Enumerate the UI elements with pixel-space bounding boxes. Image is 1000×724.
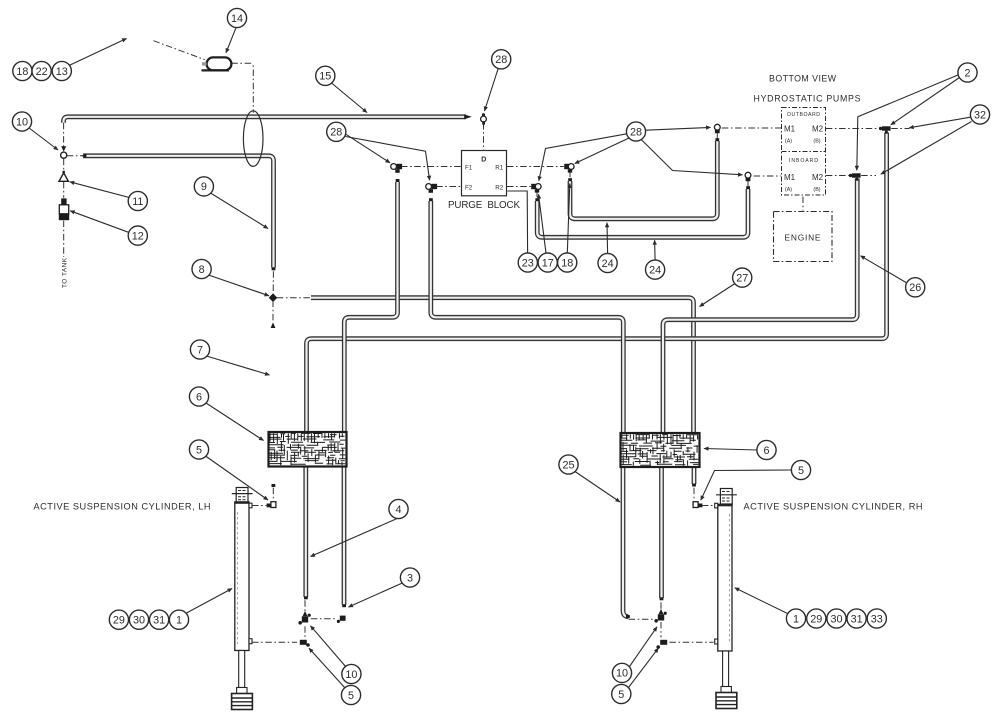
- svg-text:6: 6: [196, 391, 202, 403]
- wire hose 9 to node: [272, 271, 274, 295]
- svg-text:(B): (B): [813, 139, 820, 145]
- cap hose 9 lower end: [272, 267, 276, 270]
- callout 18 upper left: [13, 61, 32, 80]
- callout 1 RH: [786, 609, 805, 628]
- svg-text:18: 18: [561, 257, 573, 269]
- svg-text:15: 15: [319, 71, 331, 83]
- wire node to hose 27: [277, 297, 311, 299]
- cap RH base hose (M2) end: [660, 597, 664, 600]
- wire RH rod hose to elbow 5: [693, 488, 695, 500]
- grommet ellipse: [243, 111, 263, 167]
- leader 24 outer: [654, 240, 657, 260]
- cap LH rod hose end: [272, 484, 276, 487]
- svg-text:8: 8: [199, 264, 205, 276]
- svg-text:5: 5: [348, 690, 354, 702]
- wire junction to check valve 11: [63, 159, 65, 173]
- callout 31 RH: [847, 609, 866, 628]
- tee fitting 10 RH: [654, 609, 666, 623]
- hydrostatic pumps box: [782, 108, 826, 196]
- fitting 28 at R2: [531, 184, 541, 193]
- callout 28 top: [492, 50, 511, 69]
- svg-text:27: 27: [736, 272, 748, 284]
- callout 14: [227, 8, 246, 27]
- leader 15: [332, 83, 368, 113]
- hose 9 (junction to node, upper left): [83, 156, 274, 268]
- wire pumps to engine: [802, 197, 804, 211]
- svg-text:14: 14: [231, 13, 243, 25]
- callout 10 bottom LH: [342, 664, 361, 683]
- svg-text:BOTTOM VIEW: BOTTOM VIEW: [769, 74, 837, 84]
- svg-text:5: 5: [196, 444, 202, 456]
- purge block U1: [462, 151, 507, 196]
- cap inner U right leg top: [715, 138, 719, 141]
- leader 28 top: [485, 69, 499, 111]
- node junction 8: [269, 293, 278, 302]
- callout 24 outer: [646, 260, 665, 279]
- wire RH elbow 5 to rod port: [702, 505, 714, 507]
- leader 32 to inboard M2: [881, 122, 972, 175]
- leader 1 RH: [735, 588, 788, 614]
- svg-text:2: 2: [964, 67, 970, 79]
- svg-text:F1: F1: [465, 164, 473, 171]
- svg-text:D: D: [481, 155, 486, 164]
- callout 15: [316, 66, 335, 85]
- cap inner U left leg top: [568, 178, 572, 181]
- callout 18 middle: [558, 253, 577, 272]
- callout 30 RH: [827, 609, 846, 628]
- svg-text:22: 22: [36, 66, 48, 78]
- svg-text:12: 12: [132, 230, 144, 242]
- wire RH F2 hose to tee 10: [629, 618, 655, 620]
- callout 26: [906, 278, 925, 297]
- svg-text:29: 29: [113, 615, 125, 627]
- callout 4: [389, 499, 408, 518]
- filter 12: [59, 198, 69, 220]
- leader 28 left to F2: [346, 137, 430, 181]
- arrow above LH rod-side hose start: [271, 322, 276, 328]
- callout 27: [733, 268, 752, 287]
- wire outboard M2 port to fitting 2: [826, 128, 881, 130]
- wire hose 15 to junction: [63, 123, 65, 150]
- leader 12: [70, 211, 129, 233]
- leader 5 bottom LH: [309, 648, 346, 688]
- wire LH tee 10 to elbow: [311, 618, 337, 620]
- svg-text:33: 33: [871, 613, 883, 625]
- wire inboard M1 fitting to outer U hose: [747, 180, 749, 186]
- leader 28 left to F1: [346, 134, 390, 163]
- leader 32 to outboard M2: [909, 117, 970, 128]
- wire R2 port to fitting 28: [507, 186, 531, 188]
- cap F1 hose top: [396, 179, 400, 182]
- check valve 11: [59, 171, 68, 182]
- callout 8: [192, 259, 211, 278]
- svg-text:17: 17: [542, 257, 554, 269]
- hose 25 (purge F2 to RH cylinder base): [431, 201, 629, 617]
- svg-text:1: 1: [176, 615, 182, 627]
- svg-text:26: 26: [909, 282, 921, 294]
- hose 24 (R1 to outboard M1, inner U): [570, 141, 717, 219]
- wire inboard M2 port to fitting 2: [826, 175, 851, 177]
- svg-text:ACTIVE SUSPENSION CYLINDER, RH: ACTIVE SUSPENSION CYLINDER, RH: [744, 502, 923, 512]
- wire R1 port to fitting 28: [507, 166, 564, 168]
- hose (inboard M2 to RH cylinder base): [662, 179, 858, 599]
- leader 25: [575, 472, 620, 503]
- cap RH base hose (F2) end: [626, 615, 630, 618]
- svg-text:28: 28: [495, 54, 507, 66]
- hose (purge F1 to LH cylinder base): [344, 182, 398, 605]
- svg-text:F2: F2: [465, 184, 473, 191]
- svg-text:24: 24: [602, 258, 614, 270]
- wire node down to LH rod hose: [272, 301, 274, 322]
- fitting 28 at F2: [426, 184, 437, 193]
- wire check valve 11 to filter 12: [63, 182, 65, 198]
- leader 10 bottom RH: [630, 627, 658, 667]
- elbow 5 at RH rod port: [693, 502, 702, 508]
- leader 14: [226, 28, 236, 53]
- wire R2 fitting to outer U hose: [536, 191, 538, 199]
- wire LH rod port to elbow 5: [252, 505, 266, 507]
- leader 28 right to inboard M1: [641, 140, 742, 175]
- wire RH tee 10 to fitting 5: [660, 622, 662, 637]
- callout 1 LH: [169, 610, 188, 629]
- svg-text:29: 29: [810, 613, 822, 625]
- hose 26 (outboard M2 to LH cylinder base): [306, 133, 887, 598]
- wire R1 fitting to inner U hose: [569, 171, 571, 179]
- leader 11: [70, 182, 129, 198]
- wire clamp 14 to main hose: [231, 63, 253, 113]
- active suspension cylinder RH: [715, 489, 737, 709]
- leader 5 LH: [206, 456, 269, 500]
- svg-text:13: 13: [56, 66, 68, 78]
- svg-text:18: 18: [16, 66, 28, 78]
- svg-text:31: 31: [851, 613, 863, 625]
- hose 15 (main supply to purge block D): [64, 117, 467, 123]
- svg-text:10: 10: [345, 669, 357, 681]
- leader 7: [207, 356, 270, 375]
- svg-text:OUTBOARD: OUTBOARD: [787, 112, 820, 118]
- leader 8: [209, 275, 270, 296]
- elbow at LH base (hose 3): [337, 616, 346, 623]
- svg-text:32: 32: [974, 109, 986, 121]
- wire outboard M1 fitting to inner U hose: [716, 132, 718, 138]
- callout 28 right: [626, 122, 645, 141]
- leader 28 right to R2: [539, 134, 627, 181]
- svg-text:M2: M2: [812, 173, 824, 182]
- wire junction to hose 9: [67, 155, 83, 157]
- svg-text:ENGINE: ENGINE: [785, 233, 821, 243]
- callout 29 LH: [109, 610, 128, 629]
- leader 23: [508, 191, 528, 253]
- svg-text:HYDROSTATIC PUMPS: HYDROSTATIC PUMPS: [754, 94, 861, 104]
- callout 2: [958, 63, 977, 82]
- wire outboard M1 port line: [722, 127, 781, 129]
- callout 13: [52, 61, 71, 80]
- svg-text:R1: R1: [495, 164, 503, 171]
- wire filter 12 to tank: [63, 221, 65, 257]
- callout 5 bottom LH: [341, 685, 360, 704]
- callout 33 RH: [867, 609, 886, 628]
- callout 11: [128, 191, 147, 210]
- svg-text:24: 24: [649, 264, 661, 276]
- wire LH rod hose to elbow 5: [272, 488, 274, 501]
- junction node 10: [61, 146, 67, 158]
- leader 1 LH: [187, 589, 233, 614]
- leader 10 bottom LH: [311, 626, 347, 667]
- leader 2 to inboard M2: [857, 75, 959, 170]
- hose 27 (node to RH cylinder rod side): [311, 298, 694, 484]
- leader 6 LH: [206, 403, 264, 441]
- hose 24 (R2 to inboard M1, outer U): [537, 189, 748, 237]
- callout 5 RH: [791, 460, 810, 479]
- svg-text:TO TANK: TO TANK: [62, 257, 69, 288]
- svg-text:11: 11: [132, 196, 143, 208]
- wire fitting 28 to purge block D port: [483, 123, 485, 150]
- callout 5 LH: [189, 440, 208, 459]
- callout 12: [128, 226, 147, 245]
- svg-text:M1: M1: [784, 125, 796, 134]
- arrow at hose 15 right end: [464, 114, 472, 119]
- svg-text:INBOARD: INBOARD: [789, 158, 818, 164]
- tee fitting 10 LH: [298, 611, 310, 625]
- leader 24 inner: [606, 223, 609, 253]
- leader 13: [69, 39, 127, 66]
- cap LH base hose (F1) end: [342, 604, 346, 607]
- svg-text:6: 6: [763, 445, 769, 457]
- fitting 2 at inboard M2: [849, 173, 861, 180]
- leader 4: [311, 516, 405, 557]
- callout 10 bottom RH: [612, 663, 631, 682]
- svg-text:28: 28: [630, 126, 642, 138]
- wire inboard M2 fitting stub: [861, 175, 876, 177]
- fitting 5 LH base: [300, 640, 310, 647]
- callout 5 bottom RH: [612, 684, 631, 703]
- wire outboard M2 fitting stub: [891, 128, 909, 130]
- leader 10 upper left: [29, 128, 59, 151]
- svg-text:23: 23: [522, 257, 534, 269]
- wire RH base hose to tee 10: [660, 602, 662, 613]
- callout 7: [190, 340, 209, 359]
- svg-text:31: 31: [153, 615, 165, 627]
- callout 30 LH: [129, 610, 148, 629]
- wire LH base hose to tee 10: [304, 600, 306, 615]
- svg-text:10: 10: [16, 116, 28, 128]
- leader 5 bottom RH: [629, 648, 659, 687]
- leader 2 to outboard M2: [891, 78, 960, 125]
- svg-text:(B): (B): [813, 187, 820, 193]
- leader 17: [539, 194, 547, 253]
- cap F2 hose top: [429, 198, 433, 201]
- svg-text:ACTIVE SUSPENSION CYLINDER, LH: ACTIVE SUSPENSION CYLINDER, LH: [34, 502, 211, 512]
- dash line to clamp 14: [154, 41, 205, 60]
- leader 28 right to outboard M1: [646, 127, 711, 130]
- callout 6 LH: [189, 387, 208, 406]
- wire LH base port to fitting 5: [252, 641, 297, 643]
- fitting 28 at inboard M1: [745, 172, 751, 181]
- callout 17: [538, 253, 557, 272]
- wire RH fitting 5 to base port: [669, 641, 713, 643]
- svg-text:10: 10: [616, 668, 628, 680]
- svg-text:M2: M2: [812, 125, 824, 134]
- callout 28 left: [327, 122, 346, 141]
- svg-text:28: 28: [330, 127, 342, 139]
- leader 26: [861, 256, 907, 283]
- svg-text:3: 3: [407, 572, 413, 584]
- leader 27: [700, 284, 736, 307]
- cap outer U right leg top: [746, 186, 750, 189]
- cap outer U left leg top: [535, 198, 539, 201]
- leader 5 RH: [701, 470, 792, 500]
- active suspension cylinder LH: [232, 488, 253, 710]
- svg-text:9: 9: [201, 181, 207, 193]
- svg-text:(A): (A): [785, 187, 792, 193]
- engine box: [774, 212, 833, 262]
- fitting 28 at outboard M1: [714, 124, 720, 133]
- callout 9: [194, 177, 213, 196]
- callout 31 LH: [150, 610, 169, 629]
- callout 3: [400, 568, 419, 587]
- cap hose 27 lower end: [692, 484, 696, 487]
- callout 24 inner: [598, 253, 617, 272]
- svg-text:4: 4: [395, 504, 401, 516]
- svg-text:5: 5: [798, 465, 804, 477]
- leader 9: [211, 193, 269, 229]
- callout 23: [518, 253, 537, 272]
- svg-text:30: 30: [830, 613, 842, 625]
- leader 3: [349, 583, 404, 608]
- wire fitting 28 to F2 port: [436, 186, 461, 188]
- svg-text:(A): (A): [785, 139, 792, 145]
- wire inboard M1 port line: [754, 175, 781, 177]
- wire LH tee 10 to fitting 5: [304, 626, 306, 639]
- sleeve block 6 RH: [621, 433, 700, 467]
- leader 18: [567, 184, 570, 254]
- cap LH base hose (M2) end: [304, 596, 308, 599]
- elbow 5 at LH rod port: [267, 502, 276, 508]
- sleeve block 6 LH: [269, 432, 347, 467]
- svg-text:R2: R2: [495, 184, 503, 191]
- svg-text:M1: M1: [784, 173, 796, 182]
- callout 22: [32, 61, 51, 80]
- fitting 28 at R1: [564, 164, 574, 173]
- arrow at hose 9 left end: [81, 154, 87, 158]
- svg-text:1: 1: [793, 613, 799, 625]
- wire fitting 28 to F1 port: [401, 166, 461, 168]
- clamp 14: [202, 57, 232, 70]
- svg-text:30: 30: [133, 615, 145, 627]
- leader 28 right to R1: [575, 138, 629, 164]
- leader 6 RH: [704, 449, 757, 451]
- fitting 28 at purge D: [481, 113, 487, 124]
- callout 32: [970, 105, 989, 124]
- callout 6 RH: [757, 440, 776, 459]
- fitting 2 at outboard M2: [879, 126, 891, 133]
- svg-text:25: 25: [562, 459, 574, 471]
- svg-text:7: 7: [197, 344, 203, 356]
- callout 25: [559, 455, 578, 474]
- callout 29 RH: [807, 609, 826, 628]
- callout 10 upper left: [12, 112, 31, 131]
- svg-text:PURGE BLOCK: PURGE BLOCK: [448, 200, 520, 211]
- svg-text:5: 5: [618, 689, 624, 701]
- fitting 5 RH base: [656, 640, 667, 649]
- fitting 28 at F1: [391, 164, 402, 173]
